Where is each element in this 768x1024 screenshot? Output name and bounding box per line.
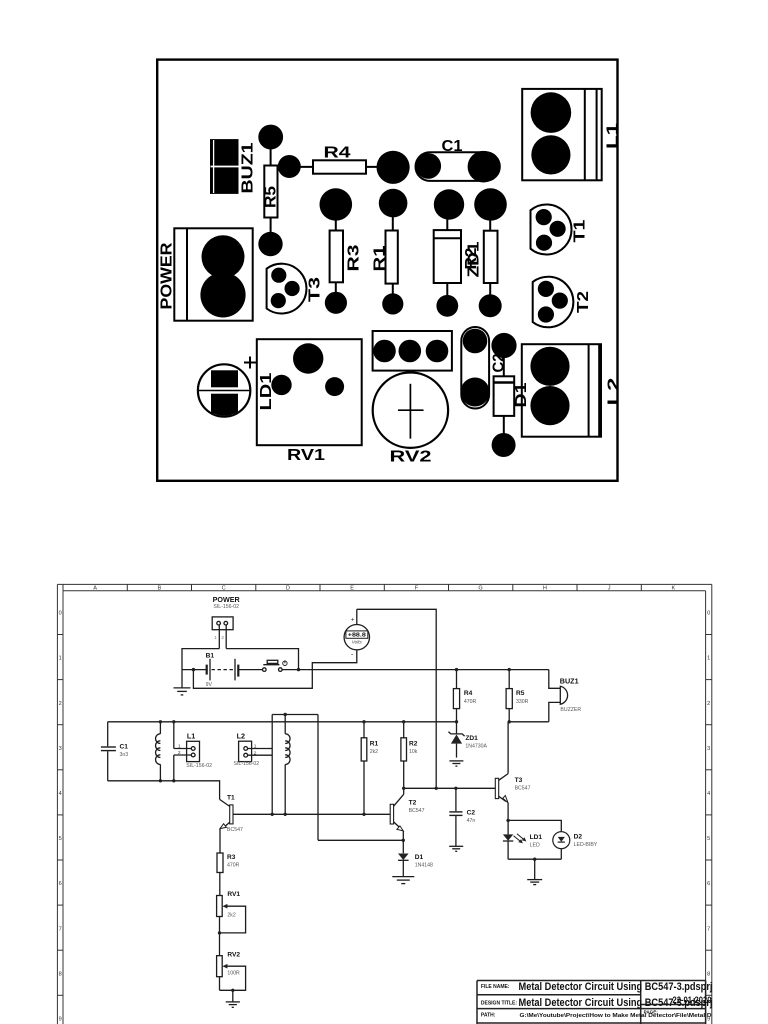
pad (C1 left)	[416, 153, 442, 179]
svg-text:SIL-156-02: SIL-156-02	[234, 761, 260, 767]
connector POWER J1	[212, 617, 233, 630]
wire tank bottom rail to T1 collector	[108, 781, 220, 800]
svg-text:6: 6	[59, 881, 62, 887]
svg-text:1: 1	[214, 635, 217, 640]
svg-text:BUZZER: BUZZER	[560, 707, 581, 713]
svg-text:BC547: BC547	[409, 808, 425, 814]
svg-text:T2: T2	[575, 291, 592, 313]
svg-text:FILE NAME:: FILE NAME:	[481, 984, 510, 990]
resistor R5 (pcb body)	[264, 166, 277, 218]
zener ZD1	[448, 732, 464, 766]
svg-text:RV1: RV1	[227, 891, 240, 898]
svg-text:SIL-156-02: SIL-156-02	[213, 604, 239, 610]
connector L2	[239, 741, 273, 761]
row ticks right	[706, 634, 712, 636]
resistor R3 (pcb body)	[330, 231, 343, 283]
wire R2 vertical	[489, 205, 491, 306]
svg-text:3: 3	[707, 746, 710, 752]
row ticks left	[57, 634, 63, 636]
switch SW	[263, 660, 299, 671]
svg-text:ZD1: ZD1	[465, 735, 478, 742]
PCB board outline	[157, 60, 617, 481]
svg-text:B: B	[158, 586, 162, 592]
svg-text:C1: C1	[120, 743, 129, 750]
svg-text:PATH:: PATH:	[481, 1012, 496, 1018]
voltmeter	[344, 609, 369, 650]
resistor R4 (pcb body)	[313, 160, 366, 173]
svg-text:BUZ1: BUZ1	[560, 676, 579, 685]
diode D1	[392, 840, 414, 883]
pad (R4 left / R5 junction)	[278, 155, 301, 178]
svg-text:R1: R1	[372, 245, 389, 271]
svg-text:R4: R4	[464, 690, 473, 697]
potentiometer RV1 (pcb footprint)	[257, 339, 362, 445]
svg-text:0: 0	[707, 611, 710, 617]
wire R3 vertical	[335, 205, 337, 303]
resistor R2 (pcb body)	[484, 231, 498, 283]
title block	[477, 981, 706, 1024]
svg-text:47n: 47n	[467, 818, 476, 824]
svg-text:1: 1	[254, 743, 257, 749]
node junction (battery minus)	[192, 668, 195, 671]
svg-text:R2: R2	[463, 247, 480, 269]
svg-text:H: H	[543, 586, 547, 592]
svg-text:R5: R5	[516, 690, 525, 697]
svg-text:R3: R3	[346, 244, 363, 271]
pad (R5 bottom)	[258, 232, 282, 256]
svg-text:LED: LED	[530, 843, 540, 849]
svg-text:330R: 330R	[516, 699, 529, 705]
column ticks	[62, 584, 64, 590]
svg-text:RV1: RV1	[287, 447, 325, 464]
svg-text:E: E	[350, 586, 354, 592]
svg-text:R2: R2	[409, 740, 418, 747]
zener ZD1 (pcb body)	[434, 230, 461, 283]
svg-text:7: 7	[707, 926, 710, 932]
ground (battery)	[174, 670, 191, 695]
svg-text:9: 9	[59, 1017, 62, 1023]
wire R4 horizontal	[289, 166, 393, 168]
svg-text:BC547: BC547	[515, 785, 531, 791]
wire meter minus return	[193, 650, 356, 689]
capacitor C1	[101, 722, 116, 781]
svg-text:5: 5	[59, 836, 62, 842]
battery B1	[207, 659, 263, 681]
pad (R2 bottom)	[479, 294, 502, 317]
svg-text:B1: B1	[206, 653, 215, 660]
svg-text:2k2: 2k2	[370, 749, 378, 755]
wire top-left to battery	[182, 649, 219, 670]
buzzer BUZ1 (pcb footprint)	[210, 139, 239, 194]
svg-text:Metal Detector Circuit Using B: Metal Detector Circuit Using BC547-3.pds…	[519, 997, 713, 1009]
svg-text:2: 2	[221, 635, 224, 640]
wire battery row	[182, 669, 206, 671]
svg-text:K: K	[672, 586, 676, 592]
svg-text:2k2: 2k2	[227, 912, 235, 918]
svg-text:C: C	[222, 586, 226, 592]
svg-text:1N4730A: 1N4730A	[465, 743, 487, 749]
main rail (C1..R4)	[108, 721, 457, 723]
svg-text:L1: L1	[187, 732, 195, 741]
resistor R5	[506, 670, 512, 722]
pad (D1 top)	[491, 333, 516, 358]
svg-text:3n3: 3n3	[120, 752, 129, 758]
diode D1 (pcb body)	[494, 376, 515, 416]
svg-text:LED-BIBY: LED-BIBY	[574, 842, 598, 848]
svg-text:RV2: RV2	[390, 449, 432, 466]
inductor L2 coil	[285, 715, 290, 815]
resistor R1	[361, 722, 367, 815]
pad (ZD1 bottom)	[436, 295, 458, 317]
svg-text:D1: D1	[415, 854, 424, 861]
ground (RV2)	[226, 989, 240, 1008]
svg-text:J: J	[608, 586, 611, 592]
svg-text:RV2: RV2	[227, 951, 240, 958]
svg-text:POWER: POWER	[213, 595, 241, 604]
svg-text:+: +	[351, 618, 355, 624]
svg-text:1N4148: 1N4148	[415, 862, 433, 868]
svg-text:PAGE:: PAGE:	[644, 1010, 659, 1015]
trimmer RV2 (pcb footprint)	[373, 331, 452, 448]
svg-text:L2: L2	[237, 732, 245, 741]
inductor L1 coil	[156, 722, 161, 781]
svg-text:1: 1	[178, 743, 181, 749]
pin 2	[224, 621, 228, 625]
svg-text:470R: 470R	[464, 699, 477, 705]
capacitor C2 (pcb stadium)	[461, 327, 489, 409]
ground (LED)	[527, 858, 542, 885]
svg-text:7: 7	[59, 926, 62, 932]
svg-text:R1: R1	[370, 740, 379, 747]
svg-text:C2: C2	[467, 809, 476, 816]
LED D2	[508, 820, 570, 859]
transistor T3	[404, 722, 508, 821]
svg-text:T1: T1	[227, 794, 235, 801]
svg-text:10k: 10k	[409, 749, 418, 755]
svg-text:9V: 9V	[206, 682, 213, 688]
svg-text:8: 8	[707, 971, 710, 977]
resistor R3	[217, 853, 223, 896]
svg-text:4: 4	[59, 791, 62, 797]
svg-text:D2: D2	[574, 834, 583, 841]
wire ZD1 vertical	[446, 205, 448, 306]
svg-text:Metal Detector Circuit Using B: Metal Detector Circuit Using BC547-3.pds…	[519, 981, 713, 993]
pads row 2 (tops of R3,R1,ZD1,R2)	[320, 188, 353, 221]
sheet frame	[57, 584, 711, 1024]
resistor R2	[401, 722, 407, 789]
wire pin1 stub	[218, 625, 220, 649]
resistor R4	[453, 670, 459, 734]
svg-text:L2: L2	[606, 377, 623, 405]
svg-text:LD1: LD1	[530, 834, 543, 841]
node junctions L1 top/bottom	[159, 720, 162, 723]
svg-text:6: 6	[707, 881, 710, 887]
schematic text labels	[120, 595, 598, 977]
svg-text:2: 2	[59, 701, 62, 707]
svg-text:+88.8: +88.8	[348, 633, 366, 639]
wire pin2 stub	[225, 625, 227, 649]
resistor R1 (pcb body)	[386, 231, 398, 284]
wire top-right to switch node	[226, 649, 298, 670]
svg-text:T1: T1	[572, 219, 589, 242]
connector L1	[174, 722, 200, 781]
pad (R4 right)	[377, 151, 410, 184]
capacitor C2	[449, 788, 463, 851]
transistor T2 (pcb TO-92)	[533, 277, 574, 328]
svg-text:0: 0	[59, 611, 62, 617]
svg-text:2: 2	[254, 750, 257, 756]
wire D1 vertical	[503, 346, 505, 446]
wire R5 vertical	[270, 137, 272, 244]
svg-text:T2: T2	[409, 800, 417, 807]
svg-text:A: A	[93, 586, 97, 592]
buzzer BUZ1	[509, 670, 567, 722]
svg-text:LD1: LD1	[258, 372, 275, 410]
wire meter plus to T2 collector	[357, 609, 436, 788]
svg-text:R4: R4	[324, 145, 351, 162]
svg-text:G:\Me\Youtube\Project\How to M: G:\Me\Youtube\Project\How to Make Metal …	[520, 1013, 712, 1019]
wires and symbols	[101, 609, 570, 1007]
svg-text:BUZ1: BUZ1	[240, 142, 257, 193]
pad (R3 bottom)	[325, 292, 347, 314]
svg-text:T3: T3	[515, 777, 523, 784]
svg-text:470R: 470R	[227, 862, 240, 868]
node junction (switch out)	[297, 668, 300, 671]
wire R1 vertical	[392, 204, 394, 304]
svg-text:4: 4	[707, 791, 710, 797]
svg-text:C1: C1	[442, 138, 463, 155]
svg-text:2: 2	[178, 750, 181, 756]
pad (D1 bottom)	[492, 433, 516, 457]
svg-text:1: 1	[59, 656, 62, 662]
svg-text:1: 1	[707, 656, 710, 662]
inductor L2 (pcb footprint)	[522, 344, 601, 437]
transistor T1 (pcb TO-92)	[531, 205, 572, 255]
svg-text:T3: T3	[307, 277, 324, 302]
svg-text:2: 2	[707, 701, 710, 707]
svg-text:D: D	[286, 586, 290, 592]
pin 1	[217, 621, 221, 625]
svg-text:R3: R3	[227, 854, 236, 861]
LED LD1	[503, 819, 526, 860]
frame letters/numbers	[59, 586, 711, 1023]
wire main supply rail	[299, 669, 549, 671]
svg-text:BC547: BC547	[227, 827, 243, 833]
inductor L1 (pcb footprint)	[522, 89, 602, 180]
capacitor C1 (pcb stadium outline)	[416, 152, 500, 181]
svg-text:5: 5	[707, 836, 710, 842]
transistor T2	[233, 787, 406, 841]
transistor T3 (pcb TO-92)	[267, 264, 307, 314]
L2 link lines	[272, 714, 318, 716]
pad (R5 top)	[258, 125, 283, 150]
svg-text:DESIGN TITLE:: DESIGN TITLE:	[481, 1000, 517, 1006]
svg-text:8: 8	[59, 971, 62, 977]
wire T2 emitter return	[318, 839, 403, 841]
transistor T1	[220, 799, 233, 853]
svg-text:SIL-156-02: SIL-156-02	[186, 763, 212, 769]
svg-text:POWER: POWER	[159, 242, 176, 309]
connector POWER (pcb footprint)	[174, 228, 252, 320]
svg-text:Volts: Volts	[352, 640, 363, 645]
svg-text:100R: 100R	[227, 970, 240, 976]
pot RV1	[217, 896, 246, 956]
svg-text:L1: L1	[605, 123, 622, 149]
pad (C1 right)	[468, 151, 500, 183]
svg-text:G: G	[478, 586, 482, 592]
svg-text:3: 3	[59, 746, 62, 752]
pad (R1 bottom)	[382, 293, 403, 314]
LED LD1 (pcb footprint)	[198, 357, 256, 417]
pot RV2	[217, 956, 246, 991]
svg-text:R5: R5	[263, 186, 280, 208]
svg-text:F: F	[415, 586, 419, 592]
